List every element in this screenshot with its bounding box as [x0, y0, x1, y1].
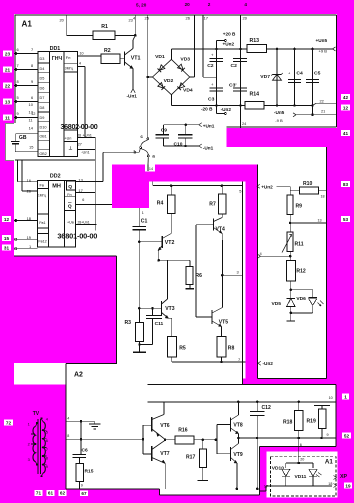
svg-text:VD6: VD6 — [296, 296, 306, 302]
svg-text:VD3: VD3 — [180, 56, 190, 62]
svg-text:9: 9 — [327, 433, 329, 437]
svg-text:6: 6 — [300, 443, 302, 447]
svg-text:R2: R2 — [104, 48, 111, 54]
svg-text:+Uп5: +Uп5 — [316, 38, 328, 43]
svg-text:-Uп5: -Uп5 — [274, 110, 285, 115]
svg-text:R1: R1 — [101, 24, 108, 30]
svg-text:C12: C12 — [262, 405, 272, 411]
svg-text:-Uп1: -Uп1 — [127, 94, 138, 99]
svg-text:20: 20 — [300, 458, 304, 462]
svg-text:C11: C11 — [155, 321, 164, 327]
svg-text:ГНЧ: ГНЧ — [52, 56, 63, 62]
svg-text:D5: D5 — [40, 77, 45, 81]
svg-text:72: 72 — [6, 420, 12, 425]
svg-text:VT9: VT9 — [233, 452, 243, 458]
svg-text:b: b — [134, 149, 137, 154]
svg-text:20: 20 — [60, 19, 64, 23]
svg-text:5, 20: 5, 20 — [136, 3, 147, 8]
svg-text:53: 53 — [343, 217, 349, 222]
svg-text:R17: R17 — [186, 455, 196, 461]
svg-text:Fв: Fв — [40, 182, 45, 187]
svg-text:GB: GB — [19, 135, 27, 141]
svg-text:18: 18 — [321, 194, 325, 198]
svg-text:2: 2 — [208, 2, 211, 7]
svg-text:7: 7 — [238, 357, 240, 362]
svg-text:11: 11 — [5, 115, 10, 120]
svg-text:A1: A1 — [22, 20, 33, 29]
svg-text:+Uп: +Uп — [65, 136, 72, 140]
svg-text:22: 22 — [5, 83, 11, 88]
svg-text:1: 1 — [28, 422, 30, 427]
svg-text:Fн: Fн — [67, 193, 71, 197]
svg-text:2: 2 — [28, 442, 30, 447]
svg-text:19: 19 — [345, 483, 351, 488]
svg-text:42: 42 — [343, 95, 349, 100]
svg-text:VT5: VT5 — [219, 320, 229, 326]
svg-text:52: 52 — [344, 433, 350, 438]
svg-text:R4: R4 — [157, 201, 164, 207]
svg-text:Q: Q — [68, 203, 72, 209]
svg-text:1: 1 — [344, 394, 347, 399]
svg-text:R19: R19 — [307, 419, 317, 425]
svg-text:DD2: DD2 — [50, 173, 61, 179]
svg-text:61: 61 — [48, 491, 54, 496]
svg-text:+9 В: +9 В — [319, 49, 328, 54]
svg-text:12: 12 — [4, 217, 10, 222]
svg-text:VT4: VT4 — [216, 226, 226, 232]
svg-text:-Uп1: -Uп1 — [81, 149, 89, 154]
svg-text:+Uп1: +Uп1 — [203, 123, 215, 128]
svg-text:R10: R10 — [303, 181, 313, 187]
svg-text:VT8: VT8 — [233, 423, 243, 429]
svg-text:C5: C5 — [314, 71, 321, 77]
svg-text:ОВ2: ОВ2 — [40, 152, 47, 156]
svg-text:Fв12: Fв12 — [38, 239, 46, 243]
svg-text:Q: Q — [68, 184, 72, 190]
svg-text:R11: R11 — [295, 241, 304, 247]
svg-text:VD1: VD1 — [155, 54, 165, 60]
svg-text:VT3: VT3 — [165, 306, 175, 312]
svg-text:10: 10 — [80, 52, 84, 56]
svg-text:10: 10 — [329, 396, 333, 400]
svg-text:C9: C9 — [161, 127, 168, 133]
svg-text:C10: C10 — [174, 141, 183, 147]
svg-text:6: 6 — [82, 198, 84, 202]
svg-text:25: 25 — [145, 16, 150, 21]
svg-text:C3': C3' — [229, 83, 237, 89]
svg-text:a: a — [152, 153, 155, 158]
svg-text:-Uп1: -Uп1 — [203, 146, 214, 151]
svg-text:4: 4 — [244, 2, 247, 7]
svg-text:-20 В: -20 В — [201, 107, 213, 112]
svg-text:D3: D3 — [40, 57, 45, 61]
svg-text:C6: C6 — [82, 448, 89, 454]
svg-text:22: 22 — [320, 99, 324, 103]
svg-text:1: 1 — [142, 211, 144, 215]
svg-text:-Uп2: -Uп2 — [263, 361, 274, 366]
svg-text:23: 23 — [129, 19, 133, 23]
svg-text:D10: D10 — [40, 126, 47, 130]
svg-text:МН: МН — [52, 183, 61, 189]
svg-text:C1: C1 — [141, 219, 148, 225]
svg-text:ОВ1: ОВ1 — [40, 135, 47, 139]
svg-text:ЗМГц: ЗМГц — [65, 67, 73, 71]
svg-text:27: 27 — [78, 142, 82, 146]
svg-text:C3: C3 — [208, 97, 215, 103]
svg-text:7: 7 — [31, 47, 33, 52]
svg-text:28+Uп1: 28+Uп1 — [78, 220, 90, 224]
svg-text:13: 13 — [318, 218, 322, 222]
svg-text:R3: R3 — [125, 320, 132, 326]
svg-text:17: 17 — [204, 16, 209, 21]
svg-text:4: 4 — [67, 416, 69, 420]
svg-text:D9: D9 — [40, 116, 45, 120]
svg-text:VT6: VT6 — [160, 423, 170, 429]
svg-text:28: 28 — [78, 133, 82, 137]
svg-text:R18: R18 — [283, 420, 293, 426]
svg-text:+20 В: +20 В — [223, 31, 236, 36]
svg-text:R8: R8 — [228, 345, 235, 351]
svg-text:62: 62 — [60, 491, 66, 496]
svg-text:C2: C2 — [231, 63, 238, 69]
svg-text:VD5: VD5 — [272, 301, 282, 307]
svg-text:VD4: VD4 — [183, 88, 193, 94]
svg-text:D8: D8 — [40, 106, 45, 110]
svg-text:+Uв: +Uв — [67, 220, 74, 224]
svg-text:41: 41 — [343, 131, 349, 136]
svg-text:11: 11 — [29, 118, 33, 123]
svg-text:71: 71 — [36, 491, 42, 496]
svg-text:83: 83 — [343, 182, 349, 187]
svg-text:R12: R12 — [296, 268, 306, 274]
svg-text:c: c — [140, 134, 143, 139]
svg-text:15: 15 — [4, 236, 10, 241]
svg-text:9: 9 — [31, 79, 33, 84]
svg-text:VD11: VD11 — [295, 474, 307, 480]
svg-text:21: 21 — [321, 110, 325, 114]
svg-text:18: 18 — [328, 482, 332, 486]
svg-text:R13: R13 — [250, 38, 260, 44]
svg-text:R9: R9 — [296, 204, 303, 210]
svg-text:R15: R15 — [85, 469, 94, 475]
svg-text:23: 23 — [5, 51, 11, 56]
svg-text:20: 20 — [243, 16, 248, 21]
svg-text:67: 67 — [81, 491, 87, 496]
svg-text:R7: R7 — [209, 201, 216, 207]
svg-text:VT1: VT1 — [131, 56, 141, 62]
svg-text:VD7: VD7 — [260, 74, 270, 80]
svg-text:Fн: Fн — [66, 55, 71, 60]
svg-text:A1: A1 — [325, 459, 334, 466]
svg-text:C2: C2 — [207, 63, 214, 69]
svg-text:26: 26 — [186, 16, 191, 21]
svg-text:D4: D4 — [40, 67, 46, 71]
svg-text:36802-00-00: 36802-00-00 — [61, 122, 98, 131]
svg-text:+Uп1: +Uп1 — [83, 132, 92, 137]
svg-text:TV: TV — [33, 411, 40, 417]
svg-text:14: 14 — [149, 167, 153, 171]
svg-text:9: 9 — [81, 484, 83, 488]
svg-text:-Uп2: -Uп2 — [221, 107, 232, 112]
svg-text:VT7: VT7 — [160, 451, 170, 457]
svg-text:4: 4 — [79, 62, 81, 66]
svg-text:7: 7 — [17, 63, 19, 68]
svg-text:R16: R16 — [178, 428, 188, 434]
svg-text:R6: R6 — [195, 273, 202, 279]
svg-text:VT2: VT2 — [165, 240, 175, 246]
svg-text:C4: C4 — [296, 71, 303, 77]
svg-text:9: 9 — [17, 111, 19, 116]
svg-text:D6: D6 — [40, 86, 45, 90]
svg-text:R5: R5 — [179, 345, 186, 351]
svg-text:12: 12 — [343, 105, 349, 110]
svg-text:Fв1: Fв1 — [39, 221, 45, 225]
svg-text:21: 21 — [5, 67, 11, 72]
svg-text:R14: R14 — [250, 91, 260, 97]
svg-text:1МГц: 1МГц — [38, 193, 46, 197]
svg-text:A2: A2 — [74, 372, 83, 379]
svg-text:XP: XP — [340, 474, 348, 480]
svg-text:+Uп2: +Uп2 — [223, 41, 235, 46]
svg-text:-9 В: -9 В — [275, 118, 283, 123]
svg-text:8: 8 — [67, 434, 69, 438]
svg-text:D7: D7 — [40, 96, 45, 100]
svg-text:13: 13 — [5, 99, 11, 104]
svg-text:20: 20 — [185, 2, 191, 7]
svg-text:+Uп2: +Uп2 — [261, 184, 273, 189]
svg-text:VD2: VD2 — [164, 78, 174, 84]
svg-text:36801-00-00: 36801-00-00 — [57, 231, 97, 240]
svg-text:31: 31 — [4, 245, 10, 250]
